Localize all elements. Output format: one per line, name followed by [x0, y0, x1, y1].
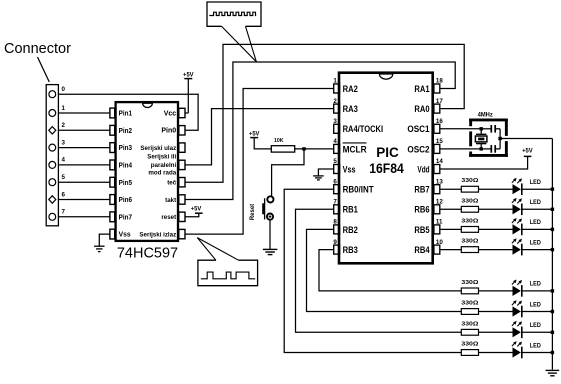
svg-text:PIC: PIC: [376, 145, 399, 160]
svg-text:330Ω: 330Ω: [461, 301, 478, 307]
svg-text:Pin0: Pin0: [161, 128, 176, 135]
svg-text:8: 8: [333, 219, 337, 226]
svg-text:LED: LED: [530, 199, 541, 206]
svg-text:+5V: +5V: [249, 130, 260, 137]
svg-text:16: 16: [436, 118, 443, 125]
svg-text:74HC597: 74HC597: [117, 246, 178, 262]
svg-text:Pin5: Pin5: [119, 180, 132, 187]
svg-text:18: 18: [436, 78, 443, 85]
svg-text:Serijski ulaz: Serijski ulaz: [140, 145, 176, 152]
svg-text:RA4/TOCKI: RA4/TOCKI: [343, 124, 384, 135]
svg-text:4: 4: [62, 157, 66, 164]
svg-text:RB4: RB4: [414, 245, 430, 256]
svg-text:RA1: RA1: [414, 84, 430, 95]
svg-text:paralelni: paralelni: [151, 162, 177, 169]
svg-text:Pin2: Pin2: [119, 128, 132, 135]
svg-text:RA3: RA3: [343, 104, 358, 115]
svg-text:Serijski ili: Serijski ili: [147, 154, 176, 161]
svg-text:1: 1: [333, 78, 337, 85]
svg-text:Vss: Vss: [119, 232, 131, 239]
svg-text:LED: LED: [530, 239, 541, 246]
svg-text:12: 12: [436, 199, 443, 206]
svg-text:6: 6: [62, 191, 66, 198]
svg-text:330Ω: 330Ω: [461, 321, 478, 327]
svg-text:OSC1: OSC1: [407, 124, 430, 135]
svg-text:17: 17: [436, 98, 443, 105]
svg-text:+5V: +5V: [191, 206, 202, 213]
svg-text:reset: reset: [161, 214, 176, 221]
svg-text:RB1: RB1: [343, 205, 359, 216]
svg-text:10: 10: [436, 239, 443, 246]
svg-text:3: 3: [62, 139, 66, 146]
svg-text:9: 9: [333, 239, 337, 246]
svg-text:OSC2: OSC2: [407, 144, 429, 155]
svg-text:15: 15: [436, 138, 443, 145]
svg-text:Pin1: Pin1: [119, 111, 132, 118]
svg-text:5: 5: [333, 158, 337, 165]
svg-text:5: 5: [62, 174, 66, 181]
svg-text:RB6: RB6: [414, 205, 429, 216]
svg-text:14: 14: [436, 158, 443, 165]
svg-text:LED: LED: [530, 281, 541, 288]
svg-text:Vcc: Vcc: [164, 110, 177, 117]
svg-text:16F84: 16F84: [369, 161, 404, 176]
svg-text:2: 2: [62, 122, 66, 129]
svg-text:LED: LED: [530, 301, 541, 308]
svg-text:mod rada: mod rada: [148, 170, 176, 177]
svg-text:0: 0: [62, 86, 66, 93]
svg-text:Pin4: Pin4: [119, 163, 132, 170]
svg-text:2: 2: [333, 98, 337, 105]
svg-text:6: 6: [333, 178, 337, 185]
svg-text:330Ω: 330Ω: [461, 280, 478, 286]
svg-text:RA2: RA2: [343, 84, 358, 95]
svg-text:LED: LED: [530, 179, 541, 186]
svg-text:330Ω: 330Ω: [461, 178, 478, 184]
svg-text:330Ω: 330Ω: [461, 218, 478, 224]
svg-text:1: 1: [62, 105, 66, 112]
svg-text:RB3: RB3: [343, 245, 358, 256]
svg-text:13: 13: [436, 178, 443, 185]
svg-text:+5V: +5V: [183, 71, 194, 78]
svg-text:330Ω: 330Ω: [461, 239, 478, 245]
svg-text:7: 7: [62, 209, 66, 216]
svg-text:Connector: Connector: [4, 41, 71, 57]
svg-text:Serijski izlaz: Serijski izlaz: [139, 232, 176, 239]
svg-text:3: 3: [333, 118, 337, 125]
svg-text:LED: LED: [530, 342, 541, 349]
svg-text:Vdd: Vdd: [417, 164, 429, 175]
svg-text:+5V: +5V: [522, 148, 533, 155]
svg-text:10K: 10K: [274, 138, 284, 144]
svg-text:MCLR: MCLR: [343, 144, 367, 155]
svg-text:LED: LED: [530, 219, 541, 226]
svg-text:teč: teč: [167, 180, 177, 187]
svg-text:330Ω: 330Ω: [461, 342, 478, 348]
svg-text:Reset: Reset: [250, 204, 256, 220]
svg-text:takt: takt: [165, 197, 176, 204]
svg-text:RB5: RB5: [414, 225, 430, 236]
svg-text:Vss: Vss: [343, 164, 356, 175]
svg-text:Pin6: Pin6: [119, 197, 132, 204]
svg-text:LED: LED: [530, 322, 541, 329]
svg-text:Pin3: Pin3: [119, 145, 132, 152]
svg-text:11: 11: [436, 219, 443, 226]
svg-text:RB2: RB2: [343, 225, 358, 236]
svg-text:RA0: RA0: [414, 104, 429, 115]
svg-text:Pin7: Pin7: [119, 214, 132, 221]
svg-text:4MHz: 4MHz: [478, 112, 493, 118]
svg-text:4: 4: [333, 138, 337, 145]
svg-text:RB7: RB7: [414, 185, 429, 196]
svg-text:330Ω: 330Ω: [461, 198, 478, 204]
svg-text:7: 7: [333, 199, 337, 206]
svg-text:RB0/INT: RB0/INT: [343, 185, 374, 196]
